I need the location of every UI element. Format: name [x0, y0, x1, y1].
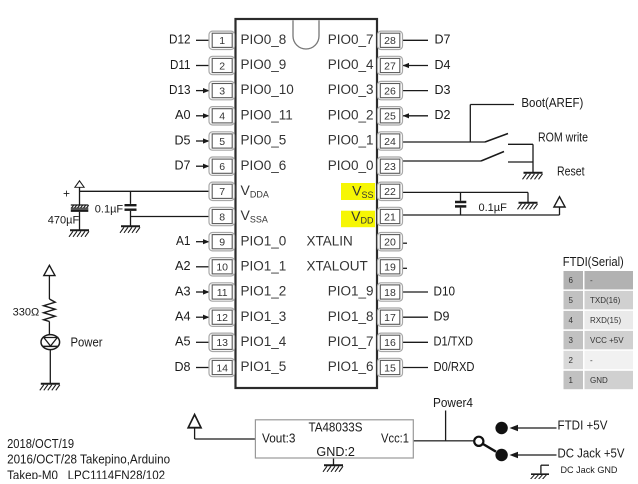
svg-text:PIO1_5: PIO1_5: [241, 359, 287, 374]
svg-text:-: -: [590, 276, 593, 285]
svg-text:D2: D2: [435, 108, 451, 122]
svg-text:0.1µF: 0.1µF: [95, 204, 124, 216]
svg-text:PIO1_1: PIO1_1: [241, 258, 287, 273]
svg-text:RXD(15): RXD(15): [590, 316, 621, 325]
svg-text:PIO1_3: PIO1_3: [241, 309, 287, 324]
svg-text:PIO0_1: PIO0_1: [328, 133, 374, 148]
svg-text:2018/OCT/19: 2018/OCT/19: [7, 437, 74, 451]
svg-text:PIO1_9: PIO1_9: [328, 284, 374, 299]
svg-text:10: 10: [216, 262, 228, 274]
svg-text:PIO0_2: PIO0_2: [328, 107, 374, 122]
svg-text:D7: D7: [175, 159, 191, 173]
svg-text:PIO0_3: PIO0_3: [328, 82, 374, 97]
svg-text:PIO0_4: PIO0_4: [328, 57, 374, 72]
svg-text:17: 17: [384, 312, 396, 324]
svg-text:PIO1_4: PIO1_4: [241, 334, 287, 349]
svg-text:ROM write: ROM write: [538, 131, 588, 145]
svg-text:Power4: Power4: [433, 396, 473, 410]
svg-text:7: 7: [219, 186, 225, 198]
svg-text:330Ω: 330Ω: [13, 307, 40, 319]
svg-text:PIO0_5: PIO0_5: [241, 133, 287, 148]
svg-text:D11: D11: [170, 58, 191, 72]
svg-text:19: 19: [384, 262, 396, 274]
svg-text:DC Jack GND: DC Jack GND: [561, 465, 618, 476]
svg-text:XTALOUT: XTALOUT: [307, 258, 368, 273]
svg-text:D1/TXD: D1/TXD: [434, 335, 474, 349]
svg-text:20: 20: [384, 237, 396, 249]
svg-text:0.1µF: 0.1µF: [479, 202, 508, 214]
svg-text:23: 23: [384, 161, 396, 173]
svg-text:DC Jack +5V: DC Jack +5V: [558, 447, 626, 461]
svg-text:18: 18: [384, 287, 396, 299]
svg-text:470µF: 470µF: [48, 215, 80, 227]
svg-text:28: 28: [384, 35, 396, 47]
svg-text:13: 13: [216, 337, 228, 349]
svg-text:PIO0_10: PIO0_10: [241, 82, 294, 97]
svg-text:D0/RXD: D0/RXD: [434, 360, 475, 374]
svg-text:4: 4: [219, 111, 225, 123]
svg-text:PIO0_11: PIO0_11: [241, 107, 293, 122]
svg-text:Vout:3: Vout:3: [262, 432, 296, 446]
svg-text:D13: D13: [169, 83, 191, 97]
svg-text:16: 16: [384, 337, 396, 349]
svg-text:A0: A0: [175, 108, 191, 122]
svg-text:D4: D4: [435, 58, 451, 72]
svg-text:PIO1_0: PIO1_0: [241, 233, 287, 248]
svg-text:Boot(AREF): Boot(AREF): [521, 96, 583, 110]
svg-text:Reset: Reset: [557, 164, 585, 178]
svg-text:25: 25: [384, 111, 396, 123]
svg-text:PIO1_6: PIO1_6: [328, 359, 374, 374]
svg-text:1: 1: [219, 35, 225, 47]
svg-text:2016/OCT/28 Takepino,Arduino: 2016/OCT/28 Takepino,Arduino: [7, 453, 170, 467]
svg-text:6: 6: [569, 276, 574, 285]
svg-text:XTALIN: XTALIN: [307, 233, 353, 248]
svg-text:D8: D8: [175, 360, 191, 374]
svg-text:D7: D7: [435, 33, 451, 47]
svg-text:TXD(16): TXD(16): [590, 296, 621, 305]
svg-text:8: 8: [219, 211, 225, 223]
svg-text:PIO1_7: PIO1_7: [328, 334, 374, 349]
svg-text:PIO0_9: PIO0_9: [241, 57, 287, 72]
svg-text:3: 3: [219, 85, 225, 97]
svg-text:A5: A5: [175, 335, 191, 349]
svg-text:5: 5: [569, 296, 574, 305]
svg-text:27: 27: [384, 60, 396, 72]
svg-text:12: 12: [216, 312, 228, 324]
svg-text:VCC +5V: VCC +5V: [590, 336, 624, 345]
svg-text:PIO1_2: PIO1_2: [241, 284, 287, 299]
svg-text:GND: GND: [590, 376, 608, 385]
svg-text:FTDI(Serial): FTDI(Serial): [563, 255, 624, 269]
svg-text:D5: D5: [175, 133, 191, 147]
svg-text:PIO0_7: PIO0_7: [328, 32, 374, 47]
svg-text:PIO1_8: PIO1_8: [328, 309, 374, 324]
svg-text:26: 26: [384, 85, 396, 97]
svg-text:Vcc:1: Vcc:1: [381, 432, 409, 446]
svg-text:D10: D10: [434, 284, 456, 298]
svg-text:15: 15: [384, 362, 396, 374]
svg-text:21: 21: [384, 211, 396, 223]
svg-text:D12: D12: [169, 33, 191, 47]
svg-text:11: 11: [217, 287, 228, 299]
svg-text:3: 3: [569, 336, 574, 345]
svg-text:D9: D9: [434, 310, 450, 324]
svg-text:PIO0_0: PIO0_0: [328, 158, 374, 173]
svg-text:A4: A4: [175, 310, 191, 324]
svg-text:6: 6: [219, 161, 225, 173]
svg-text:24: 24: [384, 136, 396, 148]
svg-text:Takep-M0_ LPC1114FN28/102: Takep-M0_ LPC1114FN28/102: [7, 469, 165, 479]
svg-text:5: 5: [219, 136, 225, 148]
svg-text:D3: D3: [435, 83, 451, 97]
svg-text:TA48033S: TA48033S: [309, 421, 363, 435]
svg-text:2: 2: [219, 60, 225, 72]
svg-text:GND:2: GND:2: [316, 445, 355, 459]
svg-text:4: 4: [569, 316, 574, 325]
svg-text:A2: A2: [175, 259, 191, 273]
svg-text:FTDI +5V: FTDI +5V: [558, 418, 609, 432]
svg-text:1: 1: [569, 376, 574, 385]
svg-text:PIO0_6: PIO0_6: [241, 158, 287, 173]
svg-text:22: 22: [384, 186, 396, 198]
svg-text:14: 14: [216, 362, 228, 374]
svg-text:9: 9: [219, 237, 225, 249]
svg-text:A3: A3: [175, 284, 191, 298]
svg-text:A1: A1: [176, 234, 191, 248]
svg-text:-: -: [590, 356, 593, 365]
svg-text:2: 2: [569, 356, 574, 365]
svg-text:+: +: [63, 186, 70, 200]
svg-text:Power: Power: [71, 336, 103, 350]
svg-text:PIO0_8: PIO0_8: [241, 32, 287, 47]
